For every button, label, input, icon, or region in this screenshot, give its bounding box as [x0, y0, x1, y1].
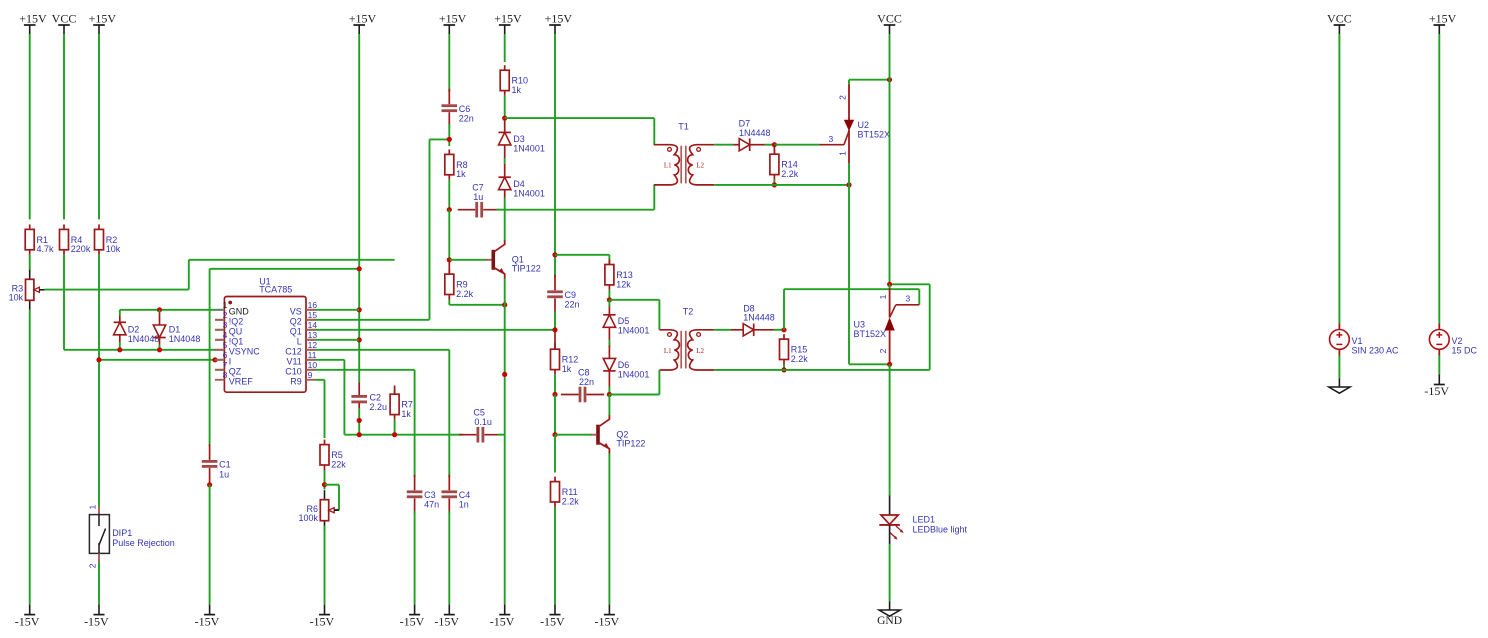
svg-text:+15V: +15V	[439, 12, 467, 26]
pin 8 VREF	[215, 379, 224, 381]
diode D1 1N4048	[159, 310, 161, 313]
resistor R14 2.2k	[773, 145, 775, 155]
wire +15V to C9 node	[554, 34, 556, 278]
transistor Q1 TIP122	[491, 250, 495, 270]
svg-text:3: 3	[829, 134, 834, 144]
resistor R12 1k	[554, 330, 556, 342]
junction U3 anode	[887, 362, 892, 367]
svg-text:V2: V2	[1452, 336, 1463, 346]
junction D8/R15	[781, 327, 786, 332]
thyristor U2 BT152X	[848, 80, 850, 85]
svg-text:8: 8	[223, 370, 228, 380]
svg-text:+15V: +15V	[545, 12, 573, 26]
svg-text:2.2k: 2.2k	[562, 496, 580, 506]
svg-text:16: 16	[308, 300, 318, 310]
svg-text:2: 2	[88, 563, 98, 568]
svg-text:VSYNC: VSYNC	[229, 347, 261, 357]
svg-text:LEDBlue light: LEDBlue light	[913, 525, 968, 535]
svg-text:220k: 220k	[71, 244, 91, 254]
wire T2 bottom left	[658, 370, 660, 395]
wire VCC to R4	[63, 34, 65, 219]
wire branch to R13	[555, 254, 609, 256]
supply -15V at x=609.4	[608, 605, 610, 615]
svg-text:L2: L2	[696, 162, 704, 170]
svg-text:7: 7	[223, 360, 228, 370]
wire U2 cathode down to U3	[848, 185, 850, 364]
svg-text:1N4048: 1N4048	[128, 334, 160, 344]
wire C8 node down to Q2 base node	[554, 395, 556, 435]
svg-text:1N4448: 1N4448	[743, 313, 775, 323]
svg-text:-15V: -15V	[84, 614, 109, 628]
wire R14 bottom	[773, 180, 775, 185]
junction R2/DIP1/I	[96, 357, 101, 362]
LED LED1	[889, 496, 891, 516]
supply -15V at x=29.7	[29, 605, 31, 615]
pin 4 !Q1	[215, 339, 224, 341]
resistor R5 22k	[324, 440, 326, 445]
supply -15V at x=414.6	[414, 605, 416, 615]
svg-text:BT152X: BT152X	[858, 130, 891, 140]
svg-text:12k: 12k	[616, 279, 631, 289]
svg-text:L1: L1	[664, 347, 672, 355]
wire analog bus	[344, 434, 463, 436]
wire T1 sec bottom row	[714, 184, 849, 186]
pin 14 Q1	[306, 329, 315, 331]
svg-text:C6: C6	[459, 104, 471, 114]
resistor R9 2.2k	[448, 260, 450, 274]
svg-text:L1: L1	[664, 162, 672, 170]
svg-text:2.2k: 2.2k	[781, 169, 799, 179]
svg-text:T1: T1	[678, 121, 689, 131]
wire D3 node to T1 top	[505, 117, 655, 119]
junction pin13 L	[357, 337, 362, 342]
wire R13 to D5 node	[608, 290, 610, 300]
junction R15 bottom	[781, 367, 786, 372]
junction C7 left	[447, 207, 452, 212]
junction VCC rail	[887, 77, 892, 82]
wire Q1 emitter down	[504, 279, 506, 605]
resistor R10 1k	[504, 65, 506, 70]
wire pin1 GND row	[120, 309, 215, 311]
wire C8 node to Q2	[608, 395, 610, 416]
svg-text:+15V: +15V	[349, 12, 377, 26]
svg-text:1k: 1k	[401, 409, 411, 419]
wire pin13 row	[215, 339, 359, 341]
svg-text:1k: 1k	[456, 169, 466, 179]
switch DIP1	[98, 506, 100, 515]
wire base node down to R11	[554, 435, 556, 473]
svg-text:VS: VS	[290, 307, 302, 317]
svg-text:VCC: VCC	[877, 12, 902, 26]
capacitor C6 22n	[448, 89, 450, 105]
pin 5 VSYNC	[215, 349, 224, 351]
supply -15V at x=504.7	[504, 605, 506, 615]
wire R15 bottom	[783, 365, 785, 370]
wire V1 to earth	[1338, 356, 1340, 379]
wire D6 to C8 node	[608, 371, 610, 387]
wire +15V to C6	[448, 34, 450, 92]
svg-text:I: I	[229, 357, 232, 367]
resistor R8 1k	[448, 149, 450, 154]
junction at pin 6	[212, 357, 217, 362]
op-amp U1 TCA785 body	[224, 297, 306, 393]
transformer T2	[659, 330, 679, 370]
svg-text:-15V: -15V	[310, 614, 335, 628]
wire R11 to -15V	[554, 507, 556, 605]
diode D4 1N4001	[499, 176, 511, 178]
svg-text:1: 1	[88, 505, 98, 510]
svg-text:-15V: -15V	[195, 614, 220, 628]
svg-text:1u: 1u	[219, 469, 229, 479]
diode D8 1N4448	[731, 329, 743, 331]
resistor R2	[98, 224, 100, 229]
wire C5 to Q1 emitter line	[497, 434, 504, 436]
svg-text:15 DC: 15 DC	[1452, 346, 1478, 356]
svg-text:15: 15	[308, 310, 318, 320]
svg-text:1k: 1k	[512, 85, 522, 95]
svg-text:VREF: VREF	[229, 377, 254, 387]
svg-text:100k: 100k	[298, 513, 318, 523]
wire pin12 C12 row	[215, 349, 449, 351]
diode D7 1N4448	[734, 144, 740, 146]
wire pin11 V11 row	[215, 359, 344, 361]
wire C3 to -15V	[414, 511, 416, 604]
resistor R4	[63, 224, 65, 229]
wire LED1 to GND	[889, 544, 891, 601]
svg-text:1N4001: 1N4001	[618, 326, 650, 336]
resistor R15 2.2k	[783, 334, 785, 339]
source V1 SIN 230 AC	[1338, 324, 1340, 330]
svg-text:10: 10	[308, 360, 318, 370]
diode D5 1N4001	[608, 300, 610, 307]
junction pin16 VS	[357, 307, 362, 312]
svg-text:QU: QU	[229, 327, 243, 337]
svg-text:GND: GND	[877, 615, 902, 627]
wire pin16 row	[215, 309, 359, 311]
svg-text:1: 1	[223, 300, 228, 310]
junction R14 bottom	[772, 182, 777, 187]
wire DIP1 to -15V	[98, 562, 100, 605]
svg-text:4: 4	[223, 330, 228, 340]
wire C6 to R8	[448, 124, 450, 146]
wire R1 to R3	[29, 255, 31, 270]
svg-text:C9: C9	[565, 290, 577, 300]
svg-text:1u: 1u	[473, 192, 483, 202]
junction R10/D3/T1	[502, 116, 507, 121]
potentiometer R6	[324, 490, 326, 500]
junction C2 bus	[357, 432, 362, 437]
svg-text:C5: C5	[473, 408, 485, 418]
svg-text:V1: V1	[1352, 336, 1363, 346]
svg-text:C7: C7	[472, 183, 484, 193]
junction R13/D5/T2	[607, 297, 612, 302]
pin 1 GND	[215, 309, 224, 311]
wire pin6 row	[99, 359, 215, 361]
wire C1 to -15V	[209, 485, 211, 605]
pin 6 I	[215, 359, 224, 361]
junction C8 right / Q2 collector	[607, 392, 612, 397]
wire T2 sec bottom row	[714, 369, 784, 371]
svg-text:+15V: +15V	[1429, 12, 1457, 26]
wire Q2 emitter to -15V	[608, 454, 610, 605]
wire D3 to D4	[504, 145, 506, 165]
wire R7 riser red lead	[394, 386, 396, 395]
junction D7/R14	[772, 142, 777, 147]
wire pin14 Q1 row	[215, 329, 555, 331]
junction emitter line	[502, 302, 507, 307]
svg-text:C2: C2	[370, 393, 382, 403]
junction R7 bus	[392, 432, 397, 437]
wire R4 to VSYNC pin 5	[63, 255, 65, 350]
pin 11 V11	[306, 359, 315, 361]
svg-text:-15V: -15V	[400, 614, 425, 628]
supply -15V at x=449.3	[448, 605, 450, 615]
transformer T1	[654, 145, 680, 185]
svg-text:2: 2	[223, 310, 228, 320]
wire D5 node to T2 top	[609, 299, 659, 301]
svg-text:SIN 230 AC: SIN 230 AC	[1352, 346, 1400, 356]
wire Q1 base	[449, 259, 487, 261]
svg-text:R9: R9	[290, 377, 302, 387]
svg-text:1: 1	[878, 294, 888, 299]
pin 12 C12	[306, 349, 315, 351]
wire U2 anode to VCC rail	[849, 79, 890, 81]
svg-text:-15V: -15V	[434, 614, 459, 628]
svg-text:2: 2	[878, 348, 888, 353]
wire VCC to V1	[1338, 34, 1340, 324]
junction C9/R13 branch	[552, 252, 557, 257]
svg-text:1N4001: 1N4001	[618, 369, 650, 379]
wire R2 node to DIP1	[98, 360, 100, 506]
capacitor C1 1u	[209, 444, 211, 460]
wire U3 to LED1	[889, 364, 891, 495]
svg-text:DIP1: DIP1	[112, 528, 132, 538]
svg-text:+15V: +15V	[494, 12, 522, 26]
ground GND	[889, 602, 891, 611]
svg-text:1N4048: 1N4048	[169, 334, 201, 344]
svg-text:Pulse Rejection: Pulse Rejection	[112, 538, 175, 548]
wire branch top	[210, 268, 360, 270]
junction R9 top / Q1 base	[447, 257, 452, 262]
wire C2 to bus	[358, 408, 360, 435]
svg-text:C12: C12	[285, 347, 302, 357]
svg-text:L2: L2	[696, 347, 704, 355]
svg-text:Q2: Q2	[290, 317, 302, 327]
svg-text:10k: 10k	[106, 244, 121, 254]
capacitor C3 47n	[414, 475, 416, 491]
svg-text:V11: V11	[286, 357, 301, 367]
svg-text:-15V: -15V	[15, 614, 40, 628]
svg-text:2.2k: 2.2k	[456, 289, 474, 299]
svg-text:QZ: QZ	[229, 367, 242, 377]
junction D1 top	[157, 307, 162, 312]
svg-text:T2: T2	[683, 306, 694, 316]
svg-text:C1: C1	[219, 460, 231, 470]
svg-text:TIP122: TIP122	[512, 264, 541, 274]
wire VS rail	[358, 34, 360, 383]
svg-text:9: 9	[308, 370, 313, 380]
svg-text:LED1: LED1	[913, 515, 936, 525]
junction U2 cathode	[846, 182, 851, 187]
junction C8 left	[552, 392, 557, 397]
resistor R11 2.2k	[554, 477, 556, 482]
pin 15 Q2	[306, 319, 315, 321]
wire R14 node to U2 gate	[774, 144, 819, 146]
capacitor C2 2.2u	[358, 383, 360, 396]
svg-text:14: 14	[308, 320, 318, 330]
svg-text:VCC: VCC	[1327, 12, 1352, 26]
capacitor C7 1u	[458, 209, 476, 211]
svg-text:!Q2: !Q2	[229, 317, 244, 327]
resistor R13 12k	[608, 260, 610, 265]
svg-text:1: 1	[838, 151, 848, 156]
wire pin9 R9 row	[315, 379, 324, 381]
capacitor C4 1n	[448, 475, 450, 491]
wire +15V to R1	[29, 34, 31, 219]
svg-text:C4: C4	[459, 490, 471, 500]
capacitor C5 0.1u	[459, 434, 477, 436]
wire R3 to -15V	[29, 310, 31, 605]
svg-text:22k: 22k	[331, 459, 346, 469]
svg-text:11: 11	[308, 350, 317, 360]
pin 9 R9	[306, 379, 315, 381]
wire pin15 Q2 row	[215, 319, 430, 321]
junction C2 wire	[357, 418, 362, 423]
svg-text:1k: 1k	[562, 364, 572, 374]
svg-text:4.7k: 4.7k	[37, 244, 55, 254]
wire R10 to D3 node	[504, 96, 506, 121]
svg-text:22n: 22n	[459, 114, 474, 124]
svg-text:0.1u: 0.1u	[474, 417, 492, 427]
wire C4 to -15V	[448, 511, 450, 604]
wire +15V to R2	[98, 34, 100, 219]
pin 2 !Q2	[215, 319, 224, 321]
junction D2 bottom	[117, 347, 122, 352]
wire R15 node to U3 gate	[783, 289, 785, 330]
svg-text:22n: 22n	[579, 377, 594, 387]
wire R9 bottom to emitter line	[448, 300, 450, 305]
svg-text:2.2k: 2.2k	[791, 354, 809, 364]
wire C9 to pin14 node	[554, 311, 556, 330]
svg-text:2.2u: 2.2u	[370, 402, 388, 412]
svg-text:13: 13	[308, 330, 318, 340]
svg-text:3: 3	[906, 294, 911, 304]
wire C7 node down to R9	[448, 210, 450, 260]
capacitor C8 22n	[561, 394, 579, 396]
earth ground below V1	[1338, 379, 1340, 388]
svg-text:1N4001: 1N4001	[513, 188, 545, 198]
supply -15V at x=324.5	[324, 605, 326, 615]
wire R6 wiper loop	[325, 484, 340, 486]
wire R2 to node I	[98, 255, 100, 360]
junction below C1	[207, 482, 212, 487]
svg-text:C8: C8	[578, 368, 590, 378]
diode D3 1N4001	[504, 121, 506, 132]
wire R5 to R6	[324, 470, 326, 490]
junction Q2 base node	[552, 432, 557, 437]
svg-text:!Q1: !Q1	[229, 337, 244, 347]
svg-text:-15V: -15V	[1424, 384, 1449, 398]
svg-text:1N4448: 1N4448	[739, 128, 771, 138]
potentiometer R3	[29, 270, 31, 280]
svg-text:-15V: -15V	[490, 614, 515, 628]
wire V2 to -15V	[1438, 356, 1440, 375]
svg-text:GND: GND	[229, 307, 250, 317]
wire R3 wiper	[44, 289, 188, 291]
resistor R7	[394, 389, 396, 394]
svg-text:BT152X: BT152X	[854, 329, 887, 339]
svg-text:+15V: +15V	[19, 12, 47, 26]
svg-text:1n: 1n	[459, 500, 469, 510]
junction mid emitter line	[502, 372, 507, 377]
wire GND row to D2	[119, 310, 121, 316]
wire Q2 base	[555, 434, 592, 436]
junction VS rail branch	[357, 266, 362, 271]
pin 7 QZ	[215, 369, 224, 371]
pin 3 QU	[215, 329, 224, 331]
svg-text:5: 5	[223, 340, 228, 350]
svg-text:-15V: -15V	[540, 614, 565, 628]
wire T2 sec top to D8	[714, 329, 731, 331]
pin 10 C10	[306, 369, 315, 371]
svg-text:47n: 47n	[424, 500, 439, 510]
svg-text:Q1: Q1	[290, 327, 302, 337]
svg-text:L: L	[297, 337, 302, 347]
svg-text:TIP122: TIP122	[616, 439, 645, 449]
svg-text:1N4001: 1N4001	[513, 144, 545, 154]
source V2 15 DC	[1438, 324, 1440, 330]
svg-text:2: 2	[838, 95, 848, 100]
wire VCC rail	[889, 34, 891, 284]
svg-text:3: 3	[223, 320, 228, 330]
supply -15V at x=555	[554, 605, 556, 615]
junction C6/R8/Q2out	[447, 137, 452, 142]
wire +15V to V2	[1438, 34, 1440, 324]
svg-text:-15V: -15V	[594, 614, 619, 628]
svg-text:12: 12	[308, 340, 318, 350]
svg-text:10k: 10k	[9, 293, 24, 303]
wire R6 to -15V	[324, 526, 326, 605]
wire box right side	[929, 284, 931, 370]
svg-text:22n: 22n	[565, 300, 580, 310]
transistor Q2 TIP122	[596, 425, 600, 445]
wire R7 to bus	[394, 420, 396, 435]
thyristor U3 BT152X	[887, 282, 892, 287]
svg-text:TCA785: TCA785	[259, 284, 292, 294]
junction R5/R6 wiper	[322, 482, 327, 487]
wire D4 to Q1 collector	[504, 190, 506, 198]
resistor R1	[29, 224, 31, 229]
wire R8 to C7 node	[448, 180, 450, 210]
supply -15V (V2)	[1438, 375, 1440, 385]
wire pin10 C10 row	[215, 369, 415, 371]
svg-text:VCC: VCC	[52, 12, 77, 26]
capacitor C9 22n	[554, 275, 556, 291]
junction D1 bottom	[157, 347, 162, 352]
junction pin14/R12/C9	[552, 327, 557, 332]
svg-text:C3: C3	[424, 490, 436, 500]
supply -15V at x=99	[98, 605, 100, 615]
wire D5 to D6	[608, 327, 610, 347]
supply -15V at x=209.6	[209, 605, 211, 615]
pin 13 L	[306, 339, 315, 341]
wire T1 sec top to D7	[714, 144, 733, 146]
wire +15V to R10	[504, 34, 506, 62]
diode D6 1N4001	[608, 346, 610, 359]
diode D2 1N4048	[119, 316, 121, 323]
wire +15V branch to C1	[209, 269, 211, 446]
svg-text:6: 6	[223, 350, 228, 360]
